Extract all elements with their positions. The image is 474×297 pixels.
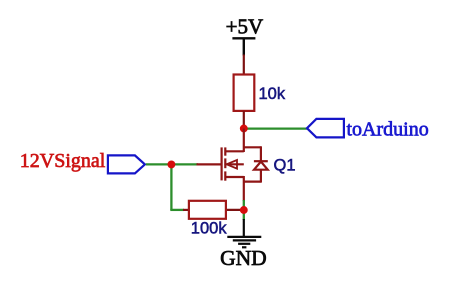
svg-text:toArduino: toArduino: [347, 119, 429, 141]
body diode anode lead: [260, 170, 262, 183]
transistor Q1: [197, 129, 268, 202]
gate pin: [197, 163, 223, 165]
node B junction: [167, 160, 175, 168]
resistor R2 pins: [183, 209, 244, 211]
svg-text:10k: 10k: [259, 85, 286, 103]
body diode triangle: [254, 162, 268, 170]
wire pin power to R1: [243, 55, 245, 76]
channel bottom segment: [224, 171, 226, 180]
port 12VSignal: [108, 155, 145, 173]
channel top segment: [224, 147, 226, 155]
wire pin R1 to node A: [243, 111, 245, 129]
drain stub: [225, 150, 244, 152]
wire green corner to R2: [170, 209, 184, 211]
resistor R1 10k: [234, 75, 255, 111]
power +5V symbol: [232, 38, 255, 55]
body diode cathode lead: [260, 146, 262, 161]
body diode top rail: [244, 146, 261, 148]
resistor R2 100k: [189, 201, 226, 219]
body diode cathode bar: [254, 160, 268, 162]
body arrow shaft: [227, 163, 244, 165]
wire green below node C: [243, 213, 245, 220]
svg-text:12VSignal: 12VSignal: [20, 150, 106, 172]
port toArduino: [307, 119, 344, 137]
svg-text:100k: 100k: [191, 220, 228, 238]
body diode bottom rail: [244, 181, 261, 183]
wire green port 12VSignal to gate: [146, 163, 198, 165]
svg-text:GND: GND: [220, 246, 267, 270]
wire green node B down: [170, 164, 172, 210]
wire green node A to port toArduino: [245, 127, 308, 129]
channel middle segment: [224, 158, 226, 168]
source stub: [225, 176, 244, 178]
svg-text:Q1: Q1: [274, 156, 296, 174]
gate line: [221, 147, 223, 180]
node A junction: [240, 125, 248, 133]
drain pin: [243, 129, 245, 153]
ground: [227, 219, 261, 247]
node C junction: [240, 206, 248, 214]
source pin: [243, 176, 245, 201]
wire green source stub: [243, 200, 245, 207]
body arrow head: [227, 160, 238, 169]
svg-text:+5V: +5V: [226, 15, 264, 39]
